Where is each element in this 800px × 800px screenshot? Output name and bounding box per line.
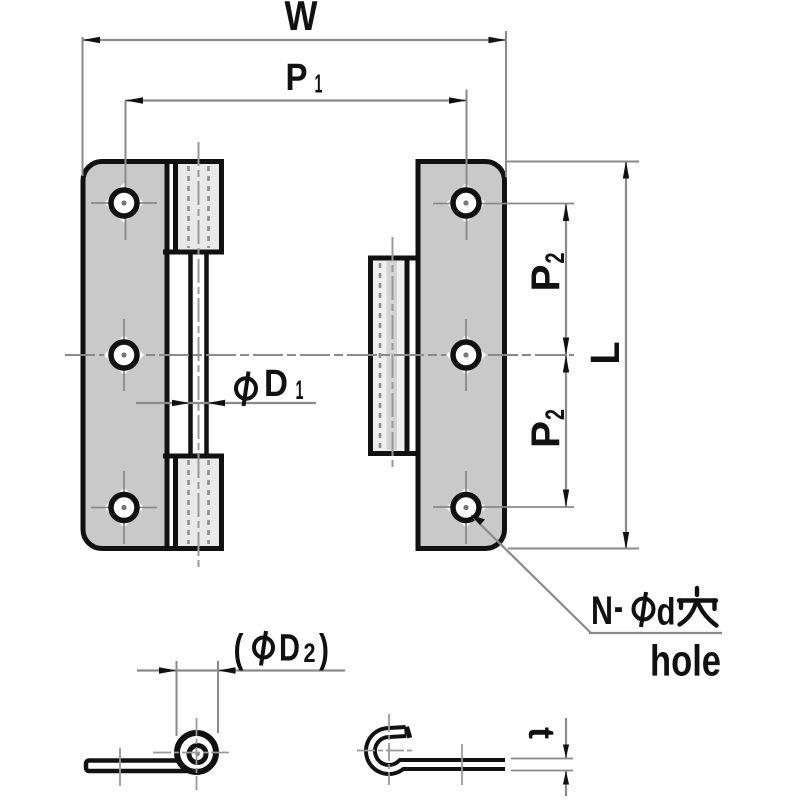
side view left: curl horizontal centerline [153,752,231,754]
left leaf bottom knuckle [176,456,222,549]
side view left: curl center dot [195,752,199,756]
left leaf plate [83,162,170,549]
dimension phiD2 right arrow [218,667,236,673]
dimension P1 line [126,99,467,101]
hole B3 [453,495,479,521]
left leaf top knuckle bottom edge extension [163,250,176,255]
hole B2 halo [446,335,486,375]
dimension P1 left arrow [126,97,144,103]
dimension phiD1 left arrow [172,400,190,406]
side view right: hook vertical centerline [388,714,390,785]
hole A2 [111,342,137,368]
centerline cross hole A2 [123,319,125,391]
left leaf top edge continuous [167,159,177,164]
kanji ana (hole) drawn strokes [679,588,717,626]
hole A3 halo [104,488,144,528]
hole B3 horizontal centerline / P2 bottom extension [433,506,574,508]
left leaf bottom edge continuous [167,546,177,551]
side view left: leaf bar [86,761,191,772]
dimension phiD2 line [137,669,345,671]
label P2 upper [524,253,570,292]
label L [582,342,628,365]
dimension W right extension [505,31,507,177]
leader line to hole note [474,518,591,633]
label P2 lower [524,409,570,448]
side view left: curl outer ring [177,733,216,772]
right leaf knuckle [371,258,408,454]
centerline cross hole A3 [123,471,125,544]
right knuckle grey band [387,261,398,450]
side view right: bar centerline [461,744,463,785]
dimension L line [625,161,627,550]
dimension phiD2 right extension [217,661,219,733]
left leaf bottom knuckle hatch [187,460,190,544]
right knuckle top edge extension [405,256,420,261]
pin centerline left column [198,142,200,568]
dimension P2 upper line [565,204,567,356]
right knuckle bottom edge extension [405,451,420,456]
dimension P1 right arrow [449,97,467,103]
left leaf top knuckle hatch [187,166,190,248]
left leaf top knuckle [176,162,222,253]
svg-text:2: 2 [304,638,316,668]
svg-text:L: L [582,342,628,365]
svg-text:P: P [524,265,568,292]
centerline cross hole B1 / P1 right extension [466,90,468,241]
hinge pin silhouette [188,252,193,456]
hole B1 halo [446,183,486,223]
dimension W right arrow [489,37,507,43]
dimension phiD2 left arrow [159,667,177,673]
hole A1 halo [104,183,144,223]
left leaf bottom knuckle top edge extension [163,454,176,459]
dimension t line lower [565,771,567,796]
svg-text:P: P [524,421,568,448]
svg-text:D: D [264,363,288,405]
svg-text:(: ( [234,627,245,671]
centerline cross hole A1 / P1 left extension [125,100,127,240]
hole B2 [453,342,479,368]
svg-text:D: D [279,628,300,670]
side view right: hook leaf [370,732,505,770]
centerline cross hole B2 [465,319,467,391]
right leaf plate [418,162,505,549]
svg-text:2: 2 [540,409,570,420]
dimension P2 lower line [565,355,567,507]
dimension t line upper [565,718,567,758]
dimension W left arrow [83,37,101,43]
dimension W left extension [82,37,84,176]
svg-text:P: P [286,57,308,99]
svg-text:hole: hole [650,637,721,686]
svg-text:1: 1 [315,69,323,99]
dimension phiD1 right arrow [208,400,226,406]
dimension t extensions [511,758,573,760]
dimension phiD2 left extension [176,661,178,736]
dimension phiD1 line [136,402,316,404]
side view left: curl vertical centerline [196,718,198,790]
svg-text:): ) [319,627,329,671]
side view right: hook horizontal centerline [357,750,415,752]
hole B3 halo [446,488,486,528]
hole B1 horizontal centerline / P2 top extension [433,203,574,205]
horizontal centerline through middle holes [65,354,574,356]
svg-text:-: - [614,585,623,629]
svg-text:2: 2 [540,253,570,264]
svg-text:N: N [591,589,613,633]
svg-text:W: W [285,0,318,39]
side view left: bar centerline [119,748,121,786]
hole A2 halo [104,335,144,375]
side view left: curl inner ring [189,746,206,763]
dimension W line [83,39,507,41]
svg-text:t: t [521,727,562,739]
label phiD1 phi symbol [236,378,256,399]
leader arrowhead [471,515,486,526]
hole A1 [111,190,137,216]
dimension L bottom extension [508,548,639,550]
dimension L top extension [507,161,639,163]
hole A3 [111,495,137,521]
svg-text:d: d [657,592,676,634]
side view right: hook end cut face [407,727,410,738]
svg-text:1: 1 [296,375,304,405]
leader underline [589,632,722,634]
right knuckle hatch [379,263,382,449]
label t [521,727,562,739]
pin centerline right column [392,237,394,471]
hole B1 [453,190,479,216]
centerline cross hole B3 [465,471,467,544]
